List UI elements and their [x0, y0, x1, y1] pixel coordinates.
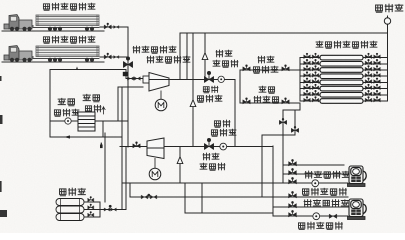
- valve cylinder 2: [88, 204, 94, 209]
- label temperature sensor (温度传感器) d1: [302, 188, 346, 195]
- label temperature (温度): [58, 98, 74, 105]
- flow arrow left on return: [64, 135, 70, 138]
- tube trailer truck 1: [2, 15, 104, 32]
- tube trailer truck 2: [2, 46, 104, 63]
- flow arrow up on header: [76, 66, 78, 70]
- motor M1: [155, 99, 167, 111]
- fuel dispenser 2: [348, 199, 367, 220]
- valve on drop x283: [280, 118, 287, 124]
- calibration room valve: [384, 16, 390, 26]
- wire cooling loop frame: [50, 70, 128, 138]
- temp sensor circle row y183: [312, 180, 319, 187]
- label pressure (压力) row2: [259, 86, 274, 93]
- valve cylinder 1: [88, 196, 94, 201]
- label sensor (传感器) mid-right: [211, 129, 235, 136]
- compressor C1 inlet flange: [143, 76, 149, 83]
- wire tank bus down: [262, 103, 300, 196]
- check valve on riser x193: [190, 100, 196, 107]
- hydrogen cylinder 2: [56, 206, 84, 213]
- fuel dispenser 1: [348, 166, 367, 187]
- wire y196: [130, 183, 348, 197]
- storage tank 7: [320, 93, 363, 98]
- label sensor (传感器) row1: [253, 66, 277, 73]
- check valve x180: [177, 157, 183, 164]
- label hydrogen tube trailer 1 (氢气长管拖车): [43, 3, 94, 10]
- scan edge smudges: [0, 76, 7, 217]
- pressure sensor on discharge: [205, 71, 214, 83]
- label sensor (传感器) comp2: [200, 163, 225, 170]
- valve dispenser row y174: [289, 168, 297, 175]
- wire compressor2 discharge: [164, 147, 193, 183]
- valve compressor2 inlet: [133, 142, 140, 148]
- label pressure (压力) row1: [258, 56, 274, 63]
- wire storage header y33: [180, 32, 388, 34]
- wire riser x205: [204, 33, 206, 80]
- storage tank 4: [320, 74, 363, 79]
- tank 1 valves: [304, 53, 380, 59]
- storage tank 5: [320, 80, 363, 85]
- drain mark near cooler: [100, 143, 103, 149]
- motor M1 stem: [160, 91, 162, 100]
- compressor C2: [147, 138, 164, 159]
- wire suction header y68: [50, 70, 143, 138]
- wire truck1 outlet: [100, 26, 128, 28]
- storage tank 2: [320, 62, 363, 67]
- label pressure sensor (压力传感器) d2: [304, 200, 348, 207]
- valve dispenser row y183: [289, 177, 297, 184]
- wire to calibration room: [387, 26, 389, 33]
- sensor feed row1: [282, 65, 289, 71]
- scan noise overlay: [0, 0, 1, 1]
- wire bottom y182: [122, 146, 348, 216]
- valve truck2 b: [114, 56, 119, 59]
- wire riser x193: [192, 33, 194, 146]
- wire riser x187: [186, 33, 188, 80]
- valve block suction: [123, 72, 128, 76]
- valve dispenser row y216: [289, 210, 297, 217]
- valve truck2: [104, 53, 111, 59]
- tank 6 valves: [304, 84, 380, 90]
- wire dispenser2 rows: [273, 207, 348, 216]
- wire manifold riser x128: [127, 27, 129, 147]
- storage tank 8: [320, 99, 363, 104]
- label pressure sensor (压力传感器) at compressor inlet: [133, 46, 176, 53]
- tank 7 valves: [304, 90, 380, 96]
- wire y146: [193, 146, 273, 148]
- tank 5 valves: [304, 78, 380, 84]
- storage tank bank: [300, 33, 388, 101]
- valve dispenser row y207: [289, 201, 297, 208]
- valve truck1: [104, 23, 111, 29]
- temperature sensor circle in cooling loop: [65, 118, 71, 124]
- valve suction a: [128, 77, 134, 80]
- label sensor (传感器) mid: [197, 95, 221, 102]
- wire compressor2 inlet y148: [120, 146, 147, 148]
- tank 3 valves: [304, 65, 380, 71]
- wire discharge y79: [169, 80, 235, 147]
- storage tank 3: [320, 68, 363, 73]
- label temperature (温度) mid-right: [214, 120, 229, 127]
- storage tank 1: [320, 55, 363, 60]
- valve dispenser row y165: [289, 159, 297, 166]
- label sensor (传感器) row2: [254, 96, 278, 103]
- label pressure sensor (压力传感器) d1: [305, 171, 349, 178]
- label sensor (传感器): [54, 109, 78, 116]
- temperature sensor circle on discharge: [218, 76, 224, 82]
- label system (系统): [85, 105, 100, 112]
- pressure sensor on y146: [205, 138, 214, 150]
- valve dispenser row y197: [289, 191, 297, 198]
- valve feed row1: [243, 65, 250, 71]
- wire tank feed row1 y70: [240, 69, 300, 71]
- valve suction b: [134, 77, 140, 80]
- hydrogen cylinder 1: [56, 199, 84, 206]
- valve on drop x295: [292, 126, 299, 132]
- motor M2 stem: [154, 159, 156, 169]
- label hydrogen tank (氢气罐): [60, 188, 86, 196]
- tank 4 valves: [304, 71, 380, 77]
- label temperature sensor (温度传感器) d2: [298, 222, 342, 229]
- tank 8 valves: [304, 96, 380, 102]
- wire tank feed row2 y103: [240, 70, 300, 103]
- label sensor (传感器) top: [213, 60, 238, 67]
- label pressure (压力) comp2: [203, 153, 219, 160]
- sensor feed row2: [282, 98, 289, 104]
- label hydrogen tube trailer 2 (氢气长管拖车): [43, 36, 94, 43]
- label pressure (压力) mid: [203, 86, 218, 93]
- wire dispenser1 rows: [283, 165, 348, 174]
- valve truck1 b: [114, 26, 119, 29]
- sensor dark row y216: [329, 214, 336, 218]
- wire cylinder stub 3: [84, 216, 100, 218]
- label water cooling (水冷): [83, 94, 99, 101]
- valve cylinder 3: [88, 211, 94, 216]
- temp sensor circle row y216: [313, 213, 320, 220]
- tank 2 valves: [304, 59, 380, 65]
- arrow beside 系统: [102, 107, 105, 114]
- double valve on y196: [141, 194, 156, 199]
- label hydrogen compressor (氢气压缩机): [147, 56, 190, 63]
- wire truck2 outlet: [100, 56, 128, 58]
- pressure sensor on riser: [124, 57, 133, 68]
- wire cylinder collector: [100, 133, 126, 217]
- wire riser x180: [179, 33, 181, 80]
- wire cylinder stub 2: [84, 209, 100, 211]
- double block valve on cylinder line: [104, 205, 116, 211]
- wire cylinder stub 1: [84, 201, 100, 203]
- motor M2: [149, 168, 161, 180]
- check valve on riser x205: [202, 53, 208, 60]
- hydrogen cylinder 3: [56, 214, 84, 221]
- temperature sensor circle on y146: [220, 143, 227, 150]
- heat exchanger (water cooler): [78, 112, 95, 131]
- valve feed row2: [243, 98, 250, 104]
- compressor C1: [149, 73, 169, 92]
- label calibration room (校验室): [376, 4, 403, 12]
- label temperature (温度) top: [216, 50, 232, 57]
- storage tank 6: [320, 86, 363, 91]
- label in-station high pressure hydrogen storage (站内高压储氢罐): [316, 41, 377, 48]
